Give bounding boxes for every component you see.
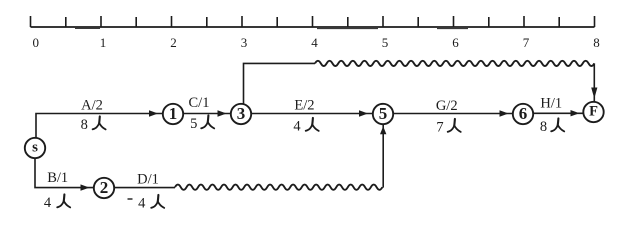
svg-text:8: 8 [81, 117, 88, 133]
node 2 [94, 178, 114, 198]
wire down into node F [593, 63, 595, 101]
svg-text:4: 4 [44, 195, 52, 211]
node S [25, 138, 45, 158]
svg-text:F: F [589, 104, 598, 120]
arrowhead into node 3 [218, 110, 227, 116]
arrowhead into node 6 [500, 110, 509, 116]
svg-text:A/2: A/2 [81, 98, 103, 114]
wire S down-elbow to node 2 (activity B) [35, 159, 93, 188]
ruler ticks [31, 16, 595, 27]
svg-text:4: 4 [138, 196, 146, 212]
svg-text:B/1: B/1 [47, 170, 68, 186]
wire node6 to nodeF (activity H) [534, 112, 584, 114]
label 8ren-H [540, 118, 564, 135]
label 7ren-G [436, 119, 460, 136]
svg-text:7: 7 [523, 35, 530, 50]
wire node1 to node3 (activity C) [183, 113, 230, 115]
wire up into node 5 [382, 125, 384, 188]
wire node5 to node6 (activity G) [394, 113, 513, 115]
arrowhead up into node 5 [380, 126, 386, 134]
node F [583, 102, 603, 122]
label 5ren-C [190, 115, 214, 132]
arrowhead into node 2 [81, 184, 90, 190]
wire node3 to node5 (activity E) [252, 113, 373, 115]
svg-text:2: 2 [170, 35, 177, 50]
svg-text:6: 6 [452, 35, 459, 50]
svg-text:D/1: D/1 [137, 172, 159, 188]
svg-text:4: 4 [293, 119, 301, 135]
ruler baseline scan doubling artifacts [75, 27, 468, 29]
svg-text:H/1: H/1 [540, 96, 562, 112]
wire S up-elbow to node 1 (activity A) [36, 114, 162, 139]
wire node3 top elbow [244, 63, 316, 104]
arrowhead into node 5 [359, 110, 368, 116]
svg-text:1: 1 [169, 104, 178, 123]
node 1 [163, 104, 183, 124]
squiggle float line top [315, 61, 594, 66]
svg-text:5: 5 [379, 104, 388, 123]
arrowhead down into node F [591, 88, 597, 99]
node 6 [513, 104, 533, 124]
arrowhead into node F [571, 110, 580, 116]
svg-text:C/1: C/1 [189, 95, 210, 111]
svg-text:s: s [32, 140, 38, 156]
label 8ren-A [81, 116, 106, 133]
svg-text:1: 1 [100, 35, 107, 50]
svg-text:E/2: E/2 [294, 98, 314, 114]
label 4ren-E [293, 118, 318, 135]
svg-text:5: 5 [382, 35, 389, 50]
svg-text:7: 7 [436, 120, 443, 136]
squiggle float line bottom [175, 185, 382, 190]
ruler numbers 0-8 [32, 35, 599, 50]
svg-text:4: 4 [311, 35, 318, 50]
label 4ren-B [44, 194, 70, 211]
label 4ren-D [128, 195, 165, 212]
node 5 [373, 104, 393, 124]
svg-text:G/2: G/2 [436, 98, 458, 114]
svg-text:6: 6 [519, 104, 528, 123]
svg-text:2: 2 [100, 178, 109, 197]
arrowhead into node 1 [149, 110, 158, 116]
wire node2 rightward (activity D) straight part [115, 187, 176, 189]
svg-text:0: 0 [32, 35, 39, 50]
svg-text:3: 3 [241, 35, 248, 50]
svg-text:5: 5 [190, 116, 197, 132]
svg-text:3: 3 [237, 104, 246, 123]
svg-text:8: 8 [540, 119, 547, 135]
node 3 [231, 104, 251, 124]
svg-text:8: 8 [593, 35, 600, 50]
ruler baseline [31, 26, 595, 28]
